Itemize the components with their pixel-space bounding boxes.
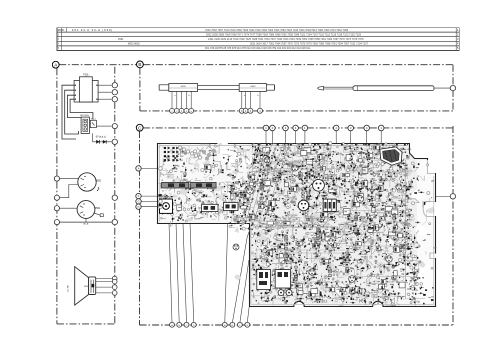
svg-text:MOD.: MOD.: [58, 28, 65, 32]
svg-text:♪: ♪: [96, 184, 100, 193]
svg-text:b: b: [189, 95, 190, 97]
svg-text:2101 2105 2109 2113 7019 7022: 2101 2105 2109 2113 7019 7022 7025 7028 …: [208, 38, 364, 41]
svg-text:9W8: 9W8: [84, 286, 88, 288]
svg-text:2561: 2561: [118, 38, 124, 41]
svg-text:8003 8062: 8003 8062: [128, 43, 140, 46]
svg-text:MIC/DIN: MIC/DIN: [80, 115, 89, 117]
svg-text:H: H: [138, 206, 140, 209]
svg-text:F01 34-C 34-A (X30): F01 34-C 34-A (X30): [72, 28, 113, 32]
svg-text:F01 378-03/375-05 378 378 010: F01 378-03/375-05 378 378 010 378 012 01…: [205, 47, 311, 50]
svg-text:A: A: [54, 62, 57, 67]
svg-text:T601: T601: [83, 74, 89, 77]
svg-text:3011 3014 3017 7061 7064 7067: 3011 3014 3017 7061 7064 7067 7070 7073 …: [250, 43, 369, 46]
svg-text:G: G: [138, 201, 140, 204]
svg-text:3561: 3561: [95, 207, 101, 210]
svg-text:S653: S653: [250, 86, 256, 88]
svg-text:7003 7054 7057 7013 7016 706: 7003 7054 7057 7013 7016 7060 7003 7064 …: [205, 29, 349, 32]
svg-text:R652: R652: [95, 179, 101, 182]
svg-text:LS 1W: LS 1W: [68, 284, 70, 291]
svg-text:6V (a,b,c): 6V (a,b,c): [96, 136, 106, 138]
svg-text:b: b: [258, 95, 259, 97]
svg-text:SK-B: SK-B: [83, 224, 89, 226]
svg-text:2502 2505 2508 7065 7068 707: 2502 2505 2508 7065 7068 7071 7074 7077 …: [206, 33, 362, 36]
svg-text:+DSC+: +DSC+: [196, 190, 204, 193]
svg-text:S652: S652: [181, 86, 187, 88]
svg-text:B: B: [138, 62, 141, 67]
